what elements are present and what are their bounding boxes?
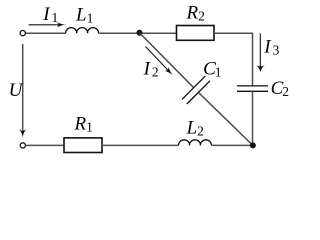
svg-text:U: U [9,80,24,101]
svg-text:L2: L2 [186,117,204,138]
wire: L2 to node B [212,144,253,146]
voltage arrow U [19,44,26,137]
capacitor C1 [182,76,210,104]
inductor L2 [179,140,212,146]
wire: R2 to corner to C2 [214,33,253,85]
current arrow I3 [256,33,265,72]
wire: diagonal node A to C1 [140,33,194,88]
node B junction [250,142,256,148]
svg-text:I2: I2 [143,58,159,79]
wire: R1 to L2 [102,144,179,146]
terminal bottom-left [20,143,25,148]
node A junction [137,30,143,36]
wire: C1 to node B diagonal [198,92,253,145]
svg-text:I3: I3 [263,37,279,58]
inductor L1 [66,28,99,34]
resistor R2 [177,26,215,41]
terminal top-left [20,30,25,35]
svg-text:L1: L1 [75,4,93,25]
resistor R1 [64,138,102,153]
svg-text:C2: C2 [271,78,289,99]
wire: top rail terminal to L1 [25,32,65,34]
capacitor C2 [237,86,268,91]
svg-text:R1: R1 [74,114,93,135]
wire: node A to R2 [140,32,177,34]
wire: L1 to node A [99,32,140,34]
wire: C2 to node B [252,91,254,145]
svg-text:I1: I1 [42,4,58,25]
current arrow I1 [29,22,66,28]
svg-text:C1: C1 [203,58,221,79]
wire: bottom terminal to R1 [25,144,64,146]
svg-text:R2: R2 [186,3,205,24]
current arrow I2 [146,47,175,78]
